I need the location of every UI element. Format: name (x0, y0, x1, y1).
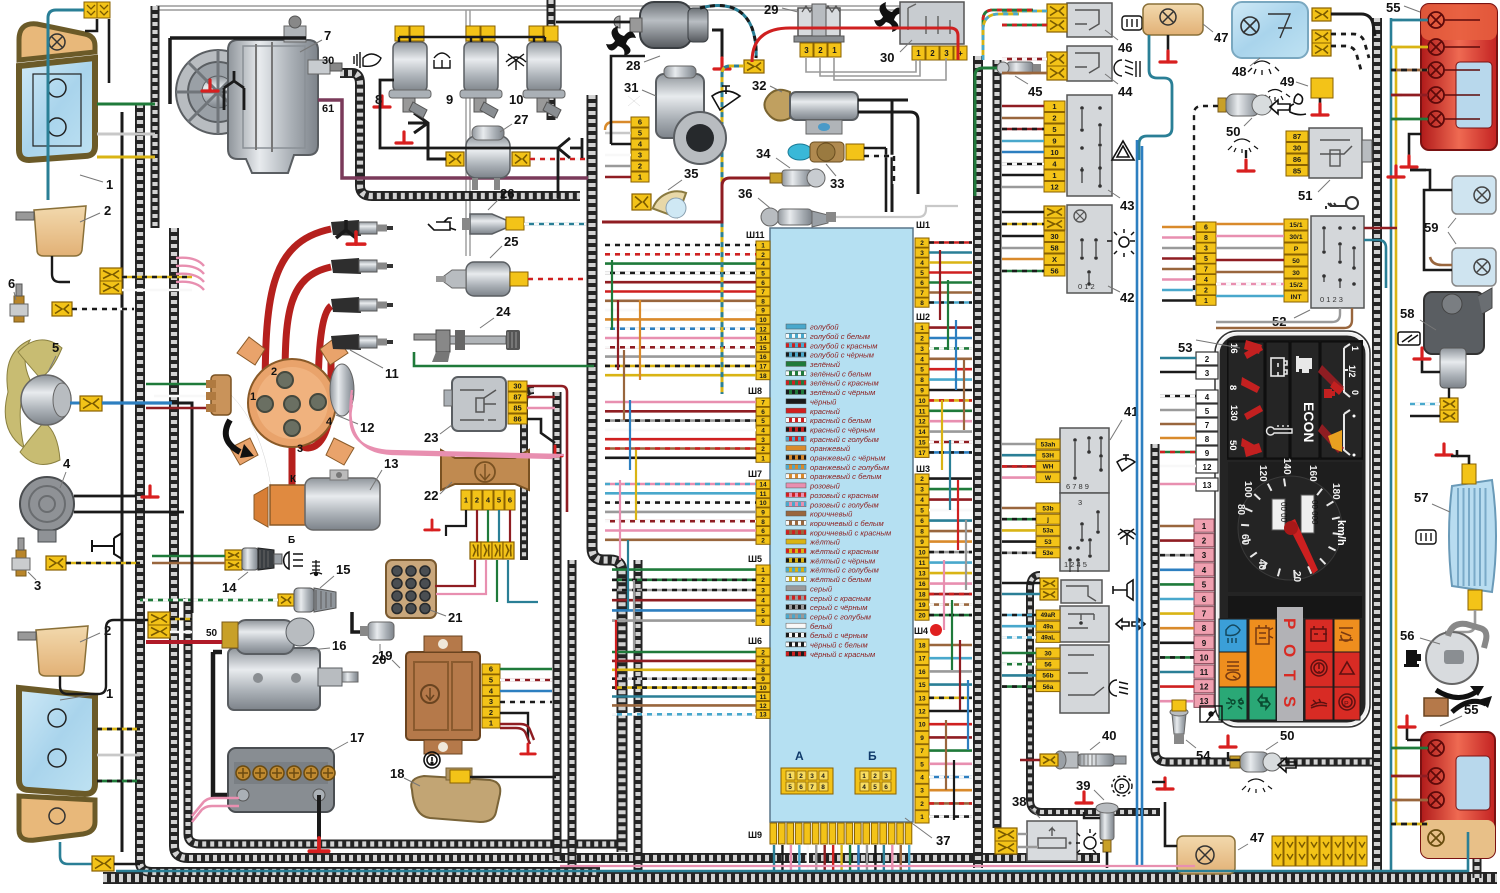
wire white-red from 25 (528, 278, 586, 281)
svg-text:2: 2 (920, 336, 924, 343)
svg-text:2: 2 (638, 162, 642, 171)
ignition switch 52 (1311, 216, 1364, 308)
label 58 (1420, 320, 1436, 330)
wires down from 52 to harness (1216, 308, 1340, 322)
svg-text:зелёный с красным: зелёный с красным (809, 379, 880, 388)
wire black headlamp top (85, 19, 109, 83)
svg-text:10: 10 (509, 92, 523, 107)
svg-text:5: 5 (1205, 407, 1210, 416)
wiper motor 31 (656, 66, 726, 164)
svg-text:18: 18 (918, 592, 926, 599)
svg-text:30: 30 (1292, 270, 1300, 277)
svg-text:3: 3 (920, 788, 924, 795)
svg-text:2: 2 (1205, 355, 1210, 364)
svg-text:21: 21 (448, 610, 462, 625)
svg-text:30: 30 (513, 382, 521, 391)
svg-text:2: 2 (1202, 537, 1207, 546)
svg-text:1: 1 (464, 496, 468, 505)
svg-text:5: 5 (761, 608, 765, 615)
pins regulator 19 (482, 664, 500, 728)
svg-text:3: 3 (1078, 498, 1082, 507)
wires from Ш2 (929, 326, 972, 329)
svg-text:X: X (1052, 255, 1057, 264)
svg-text:красный с чёрным: красный с чёрным (810, 425, 876, 434)
ground 50b (1228, 752, 1240, 760)
wire harness bottom frame (103, 872, 1497, 884)
spark plugs 11 (331, 220, 393, 236)
wire harness center vertical 4 (634, 560, 643, 870)
svg-text:красный с белым: красный с белым (810, 416, 872, 425)
arrow 56 (1436, 690, 1476, 698)
svg-text:44: 44 (1118, 84, 1133, 99)
svg-text:1: 1 (1052, 171, 1056, 180)
ground 59 (1388, 166, 1404, 177)
svg-text:20: 20 (372, 652, 386, 667)
label 39 (1094, 790, 1104, 800)
svg-text:43: 43 (1120, 198, 1134, 213)
icon washer 10 (506, 54, 526, 70)
svg-text:9: 9 (761, 676, 765, 683)
ground symbol near alternator (336, 220, 356, 238)
svg-text:3: 3 (761, 437, 765, 444)
svg-text:13: 13 (384, 456, 398, 471)
tail lamp 55 top right (1421, 4, 1497, 150)
svg-text:4: 4 (1202, 566, 1207, 575)
svg-text:розовый: розовый (809, 482, 841, 491)
svg-text:2: 2 (873, 773, 877, 780)
svg-text:Ш4: Ш4 (914, 626, 928, 636)
svg-text:1: 1 (832, 46, 837, 55)
svg-text:Ш9: Ш9 (748, 830, 762, 840)
svg-text:3: 3 (638, 151, 642, 160)
svg-text:ECON: ECON (1301, 402, 1317, 442)
svg-text:54: 54 (1196, 748, 1211, 763)
svg-text:17: 17 (918, 656, 926, 663)
svg-text:30: 30 (1050, 232, 1058, 241)
svg-text:6: 6 (920, 280, 924, 287)
svg-text:жёлтый с белым: жёлтый с белым (809, 575, 872, 584)
wires from Ш3 (929, 477, 972, 480)
label 32 (770, 86, 782, 92)
wire yellow-blue heater (722, 66, 744, 394)
svg-text:16: 16 (332, 638, 346, 653)
coil HT wire (289, 404, 296, 487)
svg-text:3: 3 (489, 697, 493, 706)
glovebox lamp 50 top (1218, 94, 1272, 116)
label 40 (1090, 742, 1100, 750)
svg-text:16: 16 (1228, 343, 1239, 354)
ignition relay 51 (1309, 128, 1362, 178)
rays 50 (1228, 139, 1258, 153)
wires from Ш9 down (773, 845, 775, 872)
svg-text:37: 37 (936, 833, 950, 848)
svg-text:9: 9 (920, 388, 924, 395)
svg-text:53: 53 (1178, 340, 1192, 355)
svg-text:7: 7 (920, 748, 924, 755)
svg-text:1: 1 (761, 567, 765, 574)
svg-text:53a: 53a (1043, 528, 1054, 535)
wires to Ш11 (605, 244, 756, 247)
svg-text:серый с чёрным: серый с чёрным (810, 603, 868, 612)
connector brown bottom (1424, 698, 1448, 716)
svg-text:4: 4 (1204, 277, 1208, 284)
wires 31 (605, 122, 631, 130)
svg-text:8: 8 (1227, 385, 1238, 390)
indicator lamps grid (1228, 596, 1362, 618)
svg-text:чёрный с красным: чёрный с красным (810, 650, 876, 659)
label 17 (330, 742, 348, 752)
svg-text:49aR: 49aR (1041, 612, 1056, 619)
label 49 (1296, 82, 1308, 86)
wires from Ш4 (929, 644, 972, 647)
svg-text:53: 53 (1044, 539, 1052, 546)
svg-text:5: 5 (920, 367, 924, 374)
defrost icon 57 (1416, 530, 1436, 544)
svg-text:53e: 53e (1043, 550, 1054, 557)
svg-text:47: 47 (1250, 830, 1264, 845)
pins Ш1 (915, 238, 929, 307)
label 41 (1110, 420, 1122, 440)
svg-text:28: 28 (626, 58, 640, 73)
handbrake switch 39 (1096, 803, 1118, 852)
svg-text:49aL: 49aL (1041, 635, 1055, 642)
svg-text:3: 3 (761, 587, 765, 594)
svg-text:18: 18 (390, 766, 404, 781)
wire harness left vertical 3 (174, 228, 1100, 858)
svg-text:чёрный с белым: чёрный с белым (810, 641, 868, 650)
washer pump 9 (460, 42, 502, 118)
svg-text:P: P (1119, 783, 1125, 792)
STOP column (1277, 607, 1303, 721)
connector top left (84, 2, 110, 18)
svg-text:2: 2 (475, 496, 479, 505)
wire harness right-center vertical 2 (993, 60, 1002, 828)
voltage regulator 19 (406, 636, 480, 754)
fan 5 wire (70, 402, 80, 405)
fuel warn icon small (1324, 389, 1335, 398)
heater fan icon (874, 2, 904, 32)
svg-text:8: 8 (761, 298, 765, 305)
washer tank 2 wires (52, 256, 70, 282)
svg-text:4: 4 (821, 773, 825, 780)
label 36 (758, 198, 770, 208)
svg-text:оранжевый с голубым: оранжевый с голубым (810, 463, 890, 472)
icon washer 9 (434, 53, 450, 68)
label 16 (310, 648, 330, 650)
svg-text:7: 7 (920, 290, 924, 297)
svg-text:P: P (1344, 701, 1349, 708)
connector 58 (1440, 398, 1458, 422)
svg-text:48: 48 (1232, 64, 1246, 79)
label 5 (48, 356, 56, 372)
svg-text:16: 16 (918, 581, 926, 588)
ground (1414, 348, 1430, 359)
sensor 15 (278, 594, 294, 606)
svg-text:5: 5 (1202, 580, 1207, 589)
battery icon (1271, 358, 1287, 376)
svg-text:6: 6 (920, 518, 924, 525)
thermometer icon (1267, 425, 1292, 435)
pins 41b (1036, 503, 1060, 558)
svg-text:14: 14 (759, 482, 767, 489)
wire teal washer pump (700, 6, 756, 59)
svg-text:оранжевый с белым: оранжевый с белым (810, 472, 882, 481)
pins Ш5 (756, 565, 770, 625)
ground (374, 96, 390, 107)
fog lamp icon 14 (284, 552, 303, 569)
ground (309, 838, 328, 851)
wire gray vertical right of alternator (466, 10, 470, 256)
svg-text:61: 61 (322, 103, 334, 115)
wire black washer pump 28 (556, 21, 630, 24)
svg-text:Ш1: Ш1 (916, 220, 930, 230)
svg-text:Б: Б (868, 749, 877, 763)
label 33 (826, 164, 836, 176)
svg-text:30: 30 (1293, 143, 1301, 152)
svg-text:коричневый: коричневый (810, 510, 853, 519)
svg-text:белый с чёрным: белый с чёрным (810, 631, 868, 640)
wires to Ш5 (612, 568, 756, 571)
label 13 (370, 470, 382, 490)
svg-text:59: 59 (1424, 220, 1438, 235)
pink wires center bundle (350, 390, 552, 458)
svg-text:130: 130 (1228, 405, 1239, 421)
svg-text:140: 140 (1281, 458, 1292, 475)
rotation arrow (226, 420, 240, 452)
svg-text:1: 1 (489, 719, 493, 728)
wires 19 (500, 668, 552, 670)
fuel tank 18 (411, 768, 500, 822)
arrow icon 50 (1270, 100, 1290, 114)
svg-text:15/1: 15/1 (1289, 222, 1302, 229)
wires tail lamp bottom (1402, 747, 1428, 750)
ground 50a (1238, 160, 1254, 171)
label 48 (1250, 58, 1260, 66)
label 55b (1440, 716, 1462, 726)
svg-text:13: 13 (918, 571, 926, 578)
svg-text:1: 1 (1052, 102, 1056, 111)
svg-text:6: 6 (489, 665, 493, 674)
svg-text:7: 7 (761, 289, 765, 296)
icon dimmer (1076, 829, 1104, 857)
svg-text:5: 5 (873, 784, 877, 791)
wires 14 (152, 555, 225, 558)
icon horn (1113, 580, 1133, 600)
svg-text:1 2 4 5: 1 2 4 5 (1064, 560, 1087, 569)
svg-text:8: 8 (920, 377, 924, 384)
svg-text:7: 7 (761, 400, 765, 407)
wire harness left vertical 2 (151, 6, 160, 228)
svg-text:Б: Б (288, 535, 295, 546)
ground tail top (1409, 134, 1421, 156)
svg-text:86: 86 (513, 415, 521, 424)
icon beam (1109, 680, 1128, 696)
label 34 (776, 158, 790, 168)
label 19 (392, 660, 400, 668)
svg-text:49: 49 (1280, 74, 1294, 89)
oil sensor 40 (1054, 751, 1126, 769)
svg-text:9: 9 (446, 92, 453, 107)
wire harness center vertical main (592, 95, 622, 852)
icon washer 41 (1118, 529, 1136, 545)
svg-text:6 7 8 9: 6 7 8 9 (1066, 482, 1089, 491)
connector relay 44 (1047, 52, 1067, 80)
svg-text:голубой с красным: голубой с красным (810, 341, 878, 350)
svg-text:8: 8 (920, 300, 924, 307)
wire black fuel sender (470, 776, 556, 778)
svg-text:56: 56 (1050, 266, 1058, 275)
svg-text:2: 2 (271, 366, 277, 378)
svg-text:10: 10 (1050, 148, 1058, 157)
speedometer cable 24 (414, 330, 520, 362)
speedometer (1228, 462, 1362, 592)
pins Ш6 (756, 648, 770, 719)
heater resistor 29 (794, 4, 844, 42)
label 43 (1108, 190, 1120, 198)
label 21 (430, 610, 446, 616)
svg-text:6: 6 (638, 118, 642, 127)
rays 50b (1242, 779, 1272, 793)
ignition relay 22 (441, 450, 529, 490)
wire white frame top (156, 6, 912, 10)
ground (1076, 792, 1092, 803)
svg-text:17: 17 (350, 730, 364, 745)
svg-text:6: 6 (761, 618, 765, 625)
svg-text:29: 29 (764, 2, 778, 17)
label 31 (642, 90, 656, 96)
label 11 (350, 350, 383, 368)
svg-text:5: 5 (761, 418, 765, 425)
svg-text:34: 34 (756, 146, 771, 161)
sensor 6 (10, 284, 28, 322)
svg-text:14: 14 (918, 429, 926, 436)
ECU connector block 37 (770, 228, 913, 822)
svg-text:160: 160 (1307, 465, 1318, 482)
pins 29 (800, 43, 841, 57)
svg-text:7: 7 (1202, 610, 1207, 619)
wire harness cluster feed (1155, 444, 1372, 762)
ground 57 (1436, 444, 1452, 455)
svg-text:4: 4 (920, 497, 924, 504)
alternator 7 (176, 16, 342, 173)
ground tail bottom (1407, 728, 1421, 740)
wire lower headlamp bottom (60, 842, 92, 864)
svg-text:1: 1 (106, 177, 113, 192)
label 54 (1186, 740, 1196, 748)
sensor 34 (770, 169, 825, 187)
svg-text:49a: 49a (1043, 623, 1054, 630)
relay 46 (1067, 3, 1112, 37)
svg-text:80: 80 (1235, 504, 1246, 516)
wire black starter to battery (213, 652, 239, 795)
svg-text:Ш3: Ш3 (916, 464, 930, 474)
relay 23 (444, 377, 506, 431)
relay 44 (1067, 46, 1112, 81)
hazard switch 43 (1067, 95, 1112, 196)
svg-text:32: 32 (752, 78, 766, 93)
svg-text:13: 13 (1203, 481, 1212, 490)
svg-text:коричневый с красным: коричневый с красным (810, 528, 892, 537)
svg-text:3: 3 (1202, 551, 1207, 560)
rays icon 48 (1248, 61, 1279, 75)
wires 29-30 gray loop (806, 58, 946, 80)
label 46 (1105, 30, 1118, 40)
wire teal right vertical (1390, 18, 1393, 870)
label 47b (1238, 844, 1248, 850)
svg-text:6: 6 (799, 784, 803, 791)
wire 36 (836, 206, 958, 217)
svg-text:T: T (1280, 670, 1299, 681)
horn 4 (20, 477, 74, 542)
label 44 (1105, 74, 1118, 84)
svg-text:16: 16 (759, 354, 767, 361)
connector lamp 35 (632, 194, 651, 210)
svg-text:3: 3 (920, 346, 924, 353)
horn icon (92, 533, 122, 559)
svg-text:00 000: 00 000 (1310, 500, 1319, 525)
label 20 (379, 644, 381, 652)
wire harness right vertical 1 (1372, 18, 1382, 872)
pins 42 (1044, 206, 1065, 230)
svg-text:2: 2 (761, 252, 765, 259)
tail lamp 55 bottom right (1421, 732, 1495, 858)
svg-text:180: 180 (1330, 483, 1341, 500)
svg-text:6: 6 (761, 409, 765, 416)
svg-text:серый: серый (810, 584, 833, 593)
svg-text:5: 5 (489, 676, 493, 685)
svg-text:7: 7 (324, 28, 331, 43)
connector 40 (1040, 754, 1058, 766)
svg-text:P: P (1280, 618, 1299, 629)
svg-text:56a: 56a (1043, 684, 1054, 691)
svg-text:коричневый с белым: коричневый с белым (810, 519, 884, 528)
svg-text:S: S (1280, 696, 1299, 707)
wire green 45 (975, 68, 997, 196)
svg-text:12: 12 (759, 703, 767, 710)
svg-text:57: 57 (1414, 490, 1428, 505)
label 51 (1318, 180, 1330, 192)
arrow icon 50b (1278, 758, 1296, 772)
svg-text:15: 15 (759, 345, 767, 352)
wires tail lamp top (1402, 19, 1428, 22)
label 18 (404, 778, 420, 786)
svg-text:1: 1 (916, 49, 921, 58)
svg-text:40: 40 (1102, 728, 1116, 743)
svg-text:9: 9 (1052, 136, 1056, 145)
ground 49 (1312, 104, 1328, 115)
svg-text:7: 7 (810, 784, 814, 791)
sensor 45 (997, 62, 1041, 74)
wires lower headlamp (97, 728, 140, 731)
wire from 26 (524, 223, 586, 226)
icon P (1112, 776, 1132, 796)
fuel pump icon (1296, 356, 1312, 373)
svg-text:5: 5 (497, 496, 501, 505)
svg-text:10: 10 (759, 500, 767, 507)
wire battery negative to ground (317, 795, 321, 838)
label 50 (1244, 118, 1252, 126)
connector 38 (995, 828, 1017, 854)
svg-text:Ш5: Ш5 (748, 554, 762, 564)
svg-text:18: 18 (759, 373, 767, 380)
pins Ш7 (756, 480, 770, 544)
icon defrost 46 (1122, 16, 1142, 30)
black arc to coil (231, 395, 271, 487)
svg-text:23: 23 (424, 430, 438, 445)
svg-text:розовый с красным: розовый с красным (809, 491, 879, 500)
svg-text:10: 10 (1200, 653, 1209, 662)
wiper icon 58 (1398, 332, 1420, 345)
